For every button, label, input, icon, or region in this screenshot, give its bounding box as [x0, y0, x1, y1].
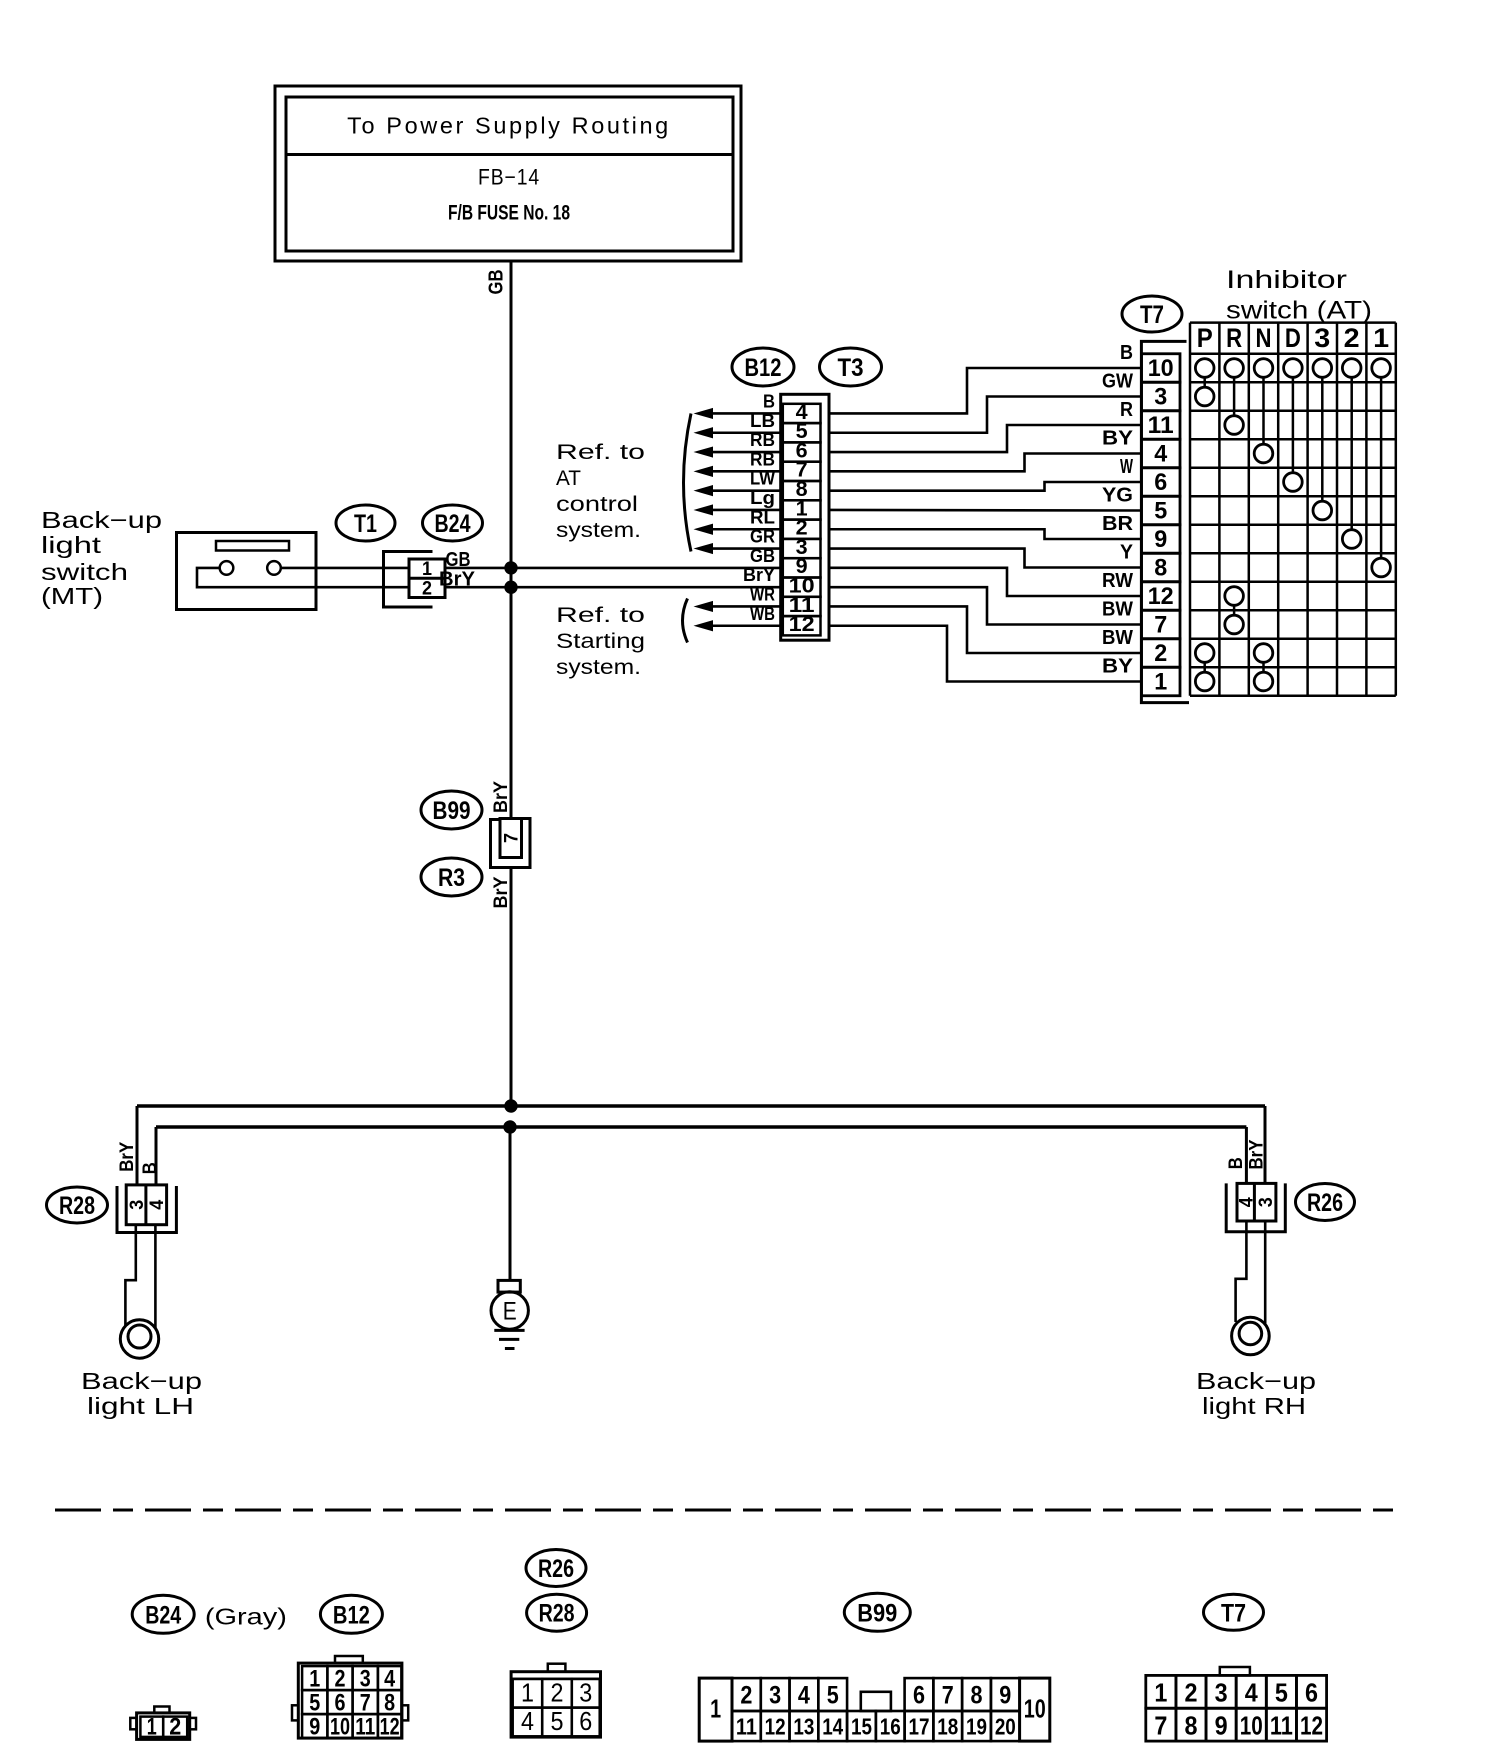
R26/R28 pinout tab	[548, 1664, 566, 1672]
svg-text:Starting: Starting	[556, 630, 645, 653]
svg-text:5: 5	[1154, 498, 1167, 525]
B12 pin 8 cell	[783, 481, 821, 500]
svg-text:3: 3	[127, 1200, 148, 1210]
T7 pin 5	[1266, 1675, 1296, 1708]
connector label T7	[1122, 296, 1182, 332]
wire BrY drop left	[136, 1106, 139, 1185]
svg-text:R28: R28	[539, 1600, 575, 1628]
wire BrY switch to B12 pin 10	[445, 586, 784, 589]
svg-text:11: 11	[736, 1714, 757, 1740]
svg-text:T7: T7	[1221, 1599, 1246, 1627]
svg-text:6: 6	[1305, 1678, 1318, 1708]
connector label R26	[526, 1550, 586, 1587]
svg-text:BrY: BrY	[439, 569, 476, 591]
contact link col R	[1233, 605, 1236, 615]
connector label B24	[423, 505, 483, 541]
svg-text:7: 7	[1154, 612, 1167, 639]
svg-text:(MT): (MT)	[41, 583, 103, 609]
T7 pin 1	[1146, 1675, 1176, 1708]
svg-text:B: B	[1120, 342, 1133, 364]
contact link col N	[1262, 377, 1265, 444]
T7 pin 11	[1266, 1708, 1296, 1741]
svg-text:4: 4	[1237, 1197, 1258, 1207]
svg-text:12: 12	[380, 1714, 400, 1741]
B12 pin 7	[353, 1690, 378, 1714]
svg-text:5: 5	[1275, 1678, 1288, 1708]
svg-text:B: B	[140, 1162, 161, 1174]
svg-text:B: B	[1226, 1157, 1247, 1169]
svg-text:7: 7	[1154, 1711, 1167, 1741]
junction BrY	[504, 1099, 517, 1112]
svg-text:BrY: BrY	[491, 781, 512, 813]
inhibitor switch grid	[1189, 323, 1192, 696]
wire with arrow to ref system	[711, 470, 781, 473]
wire with arrow to ref system	[711, 431, 781, 434]
connector B12/T3 outer shell	[781, 394, 829, 640]
contact circle row 7 col R	[1225, 615, 1244, 634]
B99 pin 7	[933, 1678, 962, 1711]
svg-text:8: 8	[1154, 555, 1167, 582]
wire B12 pin 8 to T7	[829, 482, 1142, 491]
T7 pin 3	[1206, 1675, 1236, 1708]
wire with arrow to ref system	[711, 451, 781, 454]
B99 pin 12	[761, 1711, 790, 1741]
svg-text:2: 2	[422, 579, 432, 600]
T7 pin 4 cell	[1142, 439, 1181, 468]
svg-text:6: 6	[579, 1706, 592, 1736]
svg-text:2: 2	[335, 1666, 346, 1693]
svg-text:R: R	[1120, 399, 1133, 421]
T7 pin 7 cell	[1142, 610, 1181, 639]
svg-text:E: E	[503, 1298, 517, 1326]
svg-text:control: control	[556, 493, 638, 516]
svg-text:B: B	[763, 391, 775, 411]
svg-text:BR: BR	[1102, 513, 1134, 535]
back-up light RH bulb	[1232, 1317, 1270, 1355]
svg-text:4: 4	[1154, 441, 1168, 468]
svg-text:BrY: BrY	[743, 565, 775, 585]
contact link col D	[1292, 377, 1295, 472]
T7 pin 6	[1296, 1675, 1326, 1708]
svg-text:16: 16	[880, 1714, 901, 1740]
connector B99/R3 bracket	[491, 819, 531, 868]
wire to ground E	[509, 1127, 512, 1280]
connector R26 bracket	[1226, 1183, 1285, 1231]
B12 pinout tab	[335, 1656, 363, 1663]
B24 pinout tab	[154, 1707, 169, 1713]
ground bars	[494, 1329, 524, 1332]
B99 pin 20	[991, 1711, 1020, 1741]
wire B12 pin 3 to T7	[829, 549, 1142, 568]
svg-text:5: 5	[309, 1690, 320, 1717]
svg-text:light LH: light LH	[87, 1393, 194, 1419]
svg-text:BrY: BrY	[1247, 1139, 1268, 1169]
back-up light switch (MT) body	[177, 533, 317, 610]
B99 pin 6	[905, 1678, 934, 1711]
wire lamp LH left	[125, 1225, 135, 1326]
B99 pin 1	[699, 1678, 732, 1741]
svg-text:7: 7	[942, 1682, 954, 1710]
contact link col 2	[1350, 377, 1353, 529]
B12 pin 12 cell	[783, 616, 821, 635]
svg-text:B12: B12	[333, 1601, 370, 1629]
B12 pin 9	[302, 1714, 327, 1738]
svg-text:3: 3	[769, 1682, 781, 1710]
connector label B99	[421, 791, 482, 829]
svg-text:Y: Y	[1120, 542, 1134, 564]
B99 pin 2	[732, 1678, 761, 1711]
T7 pin 7	[1146, 1708, 1176, 1741]
wire B12 pin 4 to T7	[829, 368, 1142, 413]
svg-text:W: W	[1120, 456, 1133, 478]
B12 pin 3 cell	[783, 539, 821, 558]
svg-text:2: 2	[740, 1682, 752, 1710]
R26/R28 pin 2	[542, 1679, 572, 1708]
ground E circle	[491, 1292, 528, 1329]
T7 pin 9 cell	[1142, 525, 1181, 554]
contact circle row 10 col R	[1225, 359, 1244, 378]
contact circle row 10 col N	[1254, 359, 1273, 378]
svg-text:B99: B99	[857, 1599, 897, 1627]
wire with arrow to ref system	[711, 605, 781, 608]
brace Starting system	[683, 599, 688, 643]
svg-text:9: 9	[309, 1714, 320, 1741]
wire B12 pin 5 to T7	[829, 397, 1142, 433]
T7 pin 6 cell	[1142, 468, 1181, 497]
brace AT control system	[684, 414, 692, 552]
svg-text:switch (AT): switch (AT)	[1226, 297, 1372, 325]
T7 pin 10 cell	[1142, 354, 1181, 383]
wire lamp LH right	[154, 1225, 157, 1328]
svg-text:BrY: BrY	[117, 1142, 138, 1172]
svg-text:To Power Supply Routing: To Power Supply Routing	[347, 113, 671, 139]
svg-text:9: 9	[1154, 526, 1167, 553]
connector label R26	[1296, 1184, 1355, 1221]
T7 pin 2	[1176, 1675, 1206, 1708]
svg-text:15: 15	[851, 1714, 872, 1740]
B12 pin 7 cell	[783, 462, 821, 481]
connector label T7	[1204, 1594, 1264, 1630]
svg-text:N: N	[1256, 323, 1272, 353]
svg-text:WR: WR	[750, 584, 775, 604]
B12 pin 11	[353, 1714, 378, 1738]
svg-text:YG: YG	[1102, 485, 1133, 507]
svg-text:BW: BW	[1102, 599, 1133, 621]
wire B12 pin 9 to T7	[829, 568, 1142, 596]
contact link col N	[1262, 662, 1265, 672]
svg-text:2: 2	[1154, 640, 1167, 667]
svg-text:18: 18	[937, 1714, 958, 1740]
svg-text:RW: RW	[1102, 570, 1133, 592]
wire BrY drop right	[1264, 1106, 1267, 1183]
svg-text:T3: T3	[838, 354, 864, 382]
contact circle row 1 col N	[1254, 672, 1273, 691]
wire B12 pin 1 to T7	[829, 509, 1142, 512]
B12 pinout body	[298, 1663, 402, 1738]
wire with arrow to ref system	[711, 412, 781, 415]
contact circle row 8 col 1	[1372, 558, 1391, 577]
wire lamp RH right	[1264, 1221, 1267, 1324]
svg-text:6: 6	[913, 1682, 925, 1710]
T7 pin 12 cell	[1142, 582, 1181, 611]
B99 pin 18	[933, 1711, 962, 1741]
contact link col P	[1203, 377, 1206, 387]
contact circle row 10 col 2	[1342, 359, 1361, 378]
connector label B12	[320, 1595, 382, 1633]
wire with arrow to ref system	[711, 489, 781, 492]
svg-text:F/B FUSE No. 18: F/B FUSE No. 18	[448, 202, 570, 225]
svg-text:7: 7	[360, 1690, 371, 1717]
svg-text:12: 12	[789, 612, 815, 636]
svg-text:Ref. to: Ref. to	[556, 441, 645, 464]
connector R28 bracket	[117, 1186, 176, 1233]
B12 pin 5 cell	[783, 423, 821, 442]
B12 pin 1	[302, 1666, 327, 1690]
svg-text:D: D	[1285, 323, 1301, 353]
svg-text:switch: switch	[41, 559, 128, 585]
B99 pin 16	[876, 1711, 905, 1741]
R26/R28 pin 4	[513, 1708, 543, 1737]
contact link col 3	[1321, 377, 1324, 501]
T7 pin 11 cell	[1142, 411, 1181, 440]
connector T1/B24 pin box	[409, 559, 445, 598]
B12 pin 2 cell	[783, 520, 821, 539]
B99 pin 11	[732, 1711, 761, 1741]
svg-text:T7: T7	[1140, 301, 1164, 329]
B99 pin 17	[905, 1711, 934, 1741]
svg-text:11: 11	[1270, 1711, 1293, 1741]
connector T7 bracket	[1141, 341, 1189, 702]
contact circle row 9 col 2	[1342, 530, 1361, 549]
wire GB switch to B12 pin 9	[281, 567, 409, 570]
svg-text:6: 6	[1154, 469, 1167, 496]
B12 pin 10 cell	[783, 578, 821, 597]
wire B12 pin 11 to T7	[829, 606, 1142, 653]
contact circle row 2 col N	[1254, 644, 1273, 663]
connector T1/B24 bracket	[384, 552, 433, 608]
svg-text:Ref. to: Ref. to	[556, 604, 645, 627]
svg-text:R: R	[1226, 323, 1242, 353]
svg-text:BY: BY	[1102, 428, 1134, 450]
B99 pin 13	[790, 1711, 819, 1741]
wire B drop right	[1245, 1127, 1248, 1183]
svg-text:5: 5	[827, 1682, 839, 1710]
svg-text:2: 2	[1344, 323, 1360, 353]
svg-text:20: 20	[995, 1714, 1016, 1740]
svg-text:P: P	[1197, 323, 1213, 353]
switch internal wire	[197, 568, 409, 587]
B99 key tab	[861, 1692, 891, 1711]
svg-text:8: 8	[384, 1690, 395, 1717]
R26/R28 pinout body	[511, 1672, 600, 1737]
svg-text:1: 1	[1373, 323, 1389, 353]
svg-text:light: light	[41, 532, 102, 558]
B99 pin 4	[790, 1678, 819, 1711]
contact circle row 11 col R	[1225, 416, 1244, 435]
svg-text:Inhibitor: Inhibitor	[1226, 266, 1347, 294]
svg-text:1: 1	[710, 1694, 721, 1724]
svg-text:10: 10	[1240, 1711, 1263, 1741]
wire lamp RH left	[1236, 1221, 1247, 1322]
connector label T1	[336, 505, 395, 541]
T7 pin 3 cell	[1142, 382, 1181, 411]
switch internal bar	[216, 541, 289, 551]
svg-text:2: 2	[1184, 1678, 1197, 1708]
svg-text:10: 10	[1148, 355, 1174, 382]
B99 pin 3	[761, 1678, 790, 1711]
contact circle row 3 col P	[1195, 387, 1214, 406]
svg-text:R26: R26	[538, 1555, 574, 1583]
svg-text:1: 1	[309, 1666, 320, 1693]
switch contact right	[267, 561, 281, 575]
svg-text:3: 3	[1314, 323, 1330, 353]
svg-text:7: 7	[502, 833, 523, 843]
contact circle row 6 col D	[1284, 473, 1303, 492]
svg-text:8: 8	[1184, 1711, 1197, 1741]
svg-text:BW: BW	[1102, 627, 1133, 649]
junction B/E	[503, 1120, 516, 1133]
svg-text:light RH: light RH	[1202, 1393, 1306, 1419]
svg-text:4: 4	[521, 1706, 534, 1736]
power supply routing box	[275, 86, 741, 261]
connector label B12	[732, 348, 794, 386]
B99 pin 8	[962, 1678, 991, 1711]
svg-text:3: 3	[1154, 384, 1167, 411]
contact circle row 2 col P	[1195, 644, 1214, 663]
svg-text:B99: B99	[433, 797, 471, 825]
contact circle row 10 col 1	[1372, 359, 1391, 378]
B12 pin 1 cell	[783, 500, 821, 519]
B99 pin 5	[818, 1678, 847, 1711]
svg-text:AT: AT	[556, 467, 581, 490]
svg-text:2: 2	[551, 1677, 564, 1707]
wire B12 pin 2 to T7	[829, 529, 1142, 539]
T7 pin 10	[1236, 1708, 1266, 1741]
svg-text:11: 11	[355, 1714, 375, 1741]
B12 pin 9 cell	[783, 558, 821, 577]
svg-text:B12: B12	[745, 354, 782, 382]
svg-text:10: 10	[330, 1714, 350, 1741]
connector label R3	[421, 858, 482, 896]
B99 pin 19	[962, 1711, 991, 1741]
B12 pin 12	[378, 1714, 402, 1738]
svg-text:Back−up: Back−up	[81, 1368, 202, 1394]
connector label T3	[820, 348, 882, 386]
wire B12 pin 12 to T7	[829, 626, 1142, 682]
B12 pin 6 cell	[783, 442, 821, 461]
R26/R28 pin 5	[542, 1708, 572, 1737]
T7 pin 8	[1176, 1708, 1206, 1741]
svg-text:B24: B24	[145, 1601, 181, 1629]
svg-text:(Gray): (Gray)	[205, 1604, 287, 1630]
wire B12 pin 10 to T7	[829, 587, 1142, 624]
B12 pin 4 cell	[783, 404, 821, 423]
svg-text:12: 12	[1300, 1711, 1323, 1741]
connector label B99	[844, 1593, 910, 1631]
connector label R28	[527, 1594, 587, 1631]
B12 pin 5	[302, 1690, 327, 1714]
svg-text:9: 9	[1215, 1711, 1228, 1741]
svg-text:R26: R26	[1307, 1189, 1343, 1217]
svg-text:BrY: BrY	[491, 876, 512, 908]
wire BrY vertical from R3 connector to junction	[510, 868, 513, 1107]
svg-text:10: 10	[1024, 1694, 1046, 1724]
junction BrY	[504, 581, 517, 594]
svg-text:5: 5	[551, 1706, 564, 1736]
wire with arrow to ref system	[711, 509, 781, 512]
ground E terminal box	[498, 1280, 520, 1292]
svg-text:Back−up: Back−up	[41, 507, 162, 533]
svg-text:system.: system.	[556, 519, 641, 542]
svg-text:Back−up: Back−up	[1196, 1368, 1316, 1394]
T7 pin 4	[1236, 1675, 1266, 1708]
svg-text:9: 9	[999, 1682, 1011, 1710]
T7 pin 2 cell	[1142, 639, 1181, 668]
T7 pin 9	[1206, 1708, 1236, 1741]
contact link col P	[1203, 662, 1206, 672]
B99 pin 14	[818, 1711, 847, 1741]
wire B12 pin 7 to T7	[829, 454, 1142, 472]
svg-text:12: 12	[765, 1714, 786, 1740]
junction GB	[504, 561, 517, 574]
svg-text:4: 4	[147, 1199, 168, 1209]
wire with arrow to ref system	[711, 624, 781, 627]
svg-text:1: 1	[521, 1677, 534, 1707]
contact circle row 10 col P	[1195, 359, 1214, 378]
connector label R28	[47, 1187, 108, 1223]
T7 pin 12	[1296, 1708, 1326, 1741]
svg-text:FB−14: FB−14	[478, 165, 540, 190]
svg-text:GB: GB	[486, 270, 508, 295]
contact circle row 1 col P	[1195, 672, 1214, 691]
svg-text:system.: system.	[556, 656, 641, 679]
B12 pin 2	[327, 1666, 352, 1690]
switch contact left	[220, 561, 234, 575]
dashed separator line	[55, 1509, 1400, 1512]
svg-text:3: 3	[360, 1666, 371, 1693]
B24 pin 1	[140, 1717, 163, 1737]
connector R26 pin box	[1237, 1183, 1276, 1221]
svg-text:B24: B24	[435, 510, 471, 538]
svg-text:R3: R3	[438, 864, 465, 892]
wire B horizontal	[156, 1125, 1246, 1129]
contact circle row 4 col N	[1254, 444, 1273, 463]
svg-text:13: 13	[793, 1714, 814, 1740]
svg-text:4: 4	[384, 1666, 396, 1693]
connector R28 pin box	[126, 1185, 166, 1225]
B12 pin 4	[378, 1666, 402, 1690]
back-up light LH bulb	[120, 1320, 158, 1358]
B12 pin 6	[327, 1690, 352, 1714]
svg-text:11: 11	[1148, 412, 1174, 439]
svg-text:2: 2	[169, 1714, 181, 1741]
contact circle row 5 col 3	[1313, 501, 1332, 520]
R26/R28 pin 1	[513, 1679, 543, 1708]
contact circle row 10 col D	[1284, 359, 1303, 378]
svg-text:1: 1	[1154, 1678, 1167, 1708]
T7 pin 8 cell	[1142, 553, 1181, 582]
wire B12 pin 6 to T7	[829, 425, 1142, 452]
svg-text:R28: R28	[59, 1192, 95, 1220]
wire with arrow to ref system	[711, 547, 781, 550]
R26/R28 pin 6	[572, 1708, 600, 1737]
wire GB from fuse box down	[510, 261, 513, 568]
B12 pin 3	[353, 1666, 378, 1690]
svg-text:3: 3	[1256, 1197, 1277, 1207]
svg-text:3: 3	[1215, 1678, 1228, 1708]
svg-text:1: 1	[147, 1714, 157, 1741]
T7 pin 1 cell	[1142, 667, 1181, 696]
